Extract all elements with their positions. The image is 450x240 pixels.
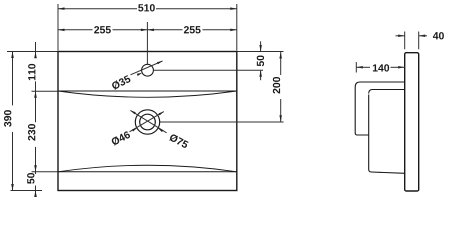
- leader line d75: [130, 110, 166, 132]
- label 255: [184, 26, 201, 33]
- dimension line 510: [58, 8, 137, 10]
- arrow 50 right bottom: [259, 70, 262, 77]
- label diameter 46: [111, 130, 131, 146]
- dimension line 390: [12, 52, 14, 106]
- arrow 390 bottom: [11, 184, 14, 191]
- leader line d46: [130, 112, 164, 132]
- arrow 510 right: [230, 7, 237, 9]
- arrow 230 top: [34, 91, 37, 98]
- label 230: [28, 124, 35, 141]
- dimension line 200: [280, 52, 282, 75]
- arrow 230 bottom: [34, 165, 37, 172]
- label 50: [27, 173, 34, 184]
- extension line right corner top: [236, 4, 238, 51]
- label 255: [94, 26, 111, 33]
- extension line centre to tap hole: [146, 22, 148, 64]
- arrow 140 right: [398, 66, 405, 69]
- label 40: [433, 32, 444, 39]
- arrow d46: [132, 128, 137, 132]
- dimension line 255 left: [58, 29, 93, 31]
- arrow d46 far: [159, 112, 164, 116]
- arrow 255 right-right: [230, 29, 237, 32]
- waste hole outer circle: [135, 110, 159, 134]
- arrow 110 top: [34, 52, 37, 59]
- side view bowl inner ledge: [369, 90, 405, 94]
- tap hole circle: [142, 64, 154, 76]
- leader line tap hole centre: [153, 69, 263, 71]
- label diameter 75: [169, 133, 189, 149]
- arrow 255 left-right: [141, 29, 148, 32]
- arrow 140 left: [356, 66, 363, 69]
- basin lower edge line: [58, 171, 237, 173]
- extension line left corner top: [57, 4, 59, 51]
- label 110: [28, 64, 35, 80]
- extension line 40 left: [404, 32, 406, 50]
- label 200: [273, 77, 280, 94]
- dimension line 40 tails: [396, 35, 405, 37]
- extension line 140 front: [355, 62, 357, 73]
- dimension line 255 right: [147, 29, 182, 31]
- arrow 255 left-left: [58, 29, 65, 32]
- dimension chain line 110-230-50: [35, 42, 37, 57]
- extension line deck level: [32, 90, 58, 92]
- arrow 255 right-left: [147, 29, 154, 32]
- basin lower bulge curve: [58, 165, 237, 172]
- arrow 40 right: [419, 35, 426, 38]
- arrow d35: [137, 73, 143, 76]
- label diameter 35: [111, 75, 131, 91]
- label 50: [257, 55, 264, 66]
- arrow 200 top: [279, 52, 282, 59]
- arrow d35 far: [157, 61, 163, 64]
- basin deck upper edge line: [58, 90, 237, 92]
- arrow 510 left: [58, 7, 65, 9]
- dimension line 140: [356, 66, 370, 68]
- dimension line 50 right: [260, 41, 262, 51]
- arrow 40 left: [398, 35, 405, 38]
- leader line d35: [131, 61, 163, 75]
- waste hole inner circle: [140, 114, 156, 130]
- label 390: [4, 110, 11, 127]
- side view bowl outer profile: [355, 82, 405, 173]
- basin front view outline: [58, 52, 237, 191]
- arrow d75: [158, 128, 163, 132]
- arrow 390 top: [11, 52, 14, 59]
- label 510: [138, 4, 155, 11]
- side view back slab: [405, 53, 419, 191]
- extension line 40 right: [418, 32, 420, 50]
- extension line lower level: [32, 171, 58, 173]
- extension line bottom edge left: [11, 190, 43, 192]
- arrow 200 bottom: [279, 115, 282, 122]
- extension line top edge right: [238, 51, 284, 53]
- arrow 50 left bottom: [34, 191, 37, 198]
- label 140: [373, 64, 389, 71]
- arrow d75 far: [130, 110, 135, 114]
- extension line top edge left: [7, 51, 58, 53]
- leader line waste centre: [160, 121, 284, 123]
- basin deck sag curve: [58, 91, 237, 97]
- arrow 50 right top: [259, 45, 262, 52]
